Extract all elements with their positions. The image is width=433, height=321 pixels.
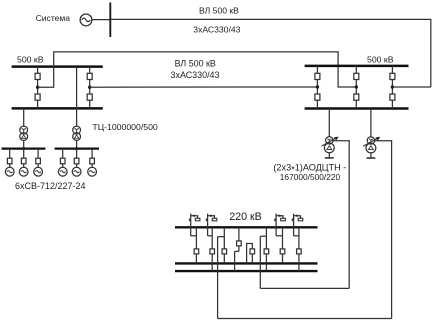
wire transformer T2 feed from upper bus xyxy=(76,67,78,127)
wire AT2 to 220 yard (bottom U) xyxy=(218,318,392,320)
breaker Q9 xyxy=(390,73,395,79)
bus W4 right 500 kV lower xyxy=(305,107,409,110)
bay AT1 connection (breaker drop + riser) xyxy=(260,227,268,288)
node T1-bus junction xyxy=(22,147,25,150)
svg-text:6хСВ-712/227-24: 6хСВ-712/227-24 xyxy=(15,181,86,191)
generator G2 bay xyxy=(19,149,28,177)
wire transformer T1 feed from lower bus xyxy=(23,108,25,126)
ground AT2 xyxy=(367,157,376,159)
generator G6 bay xyxy=(88,149,97,177)
220 kV switchyard xyxy=(175,211,392,319)
line feeder L1 xyxy=(190,214,200,264)
generator G1 bay xyxy=(5,149,14,177)
generator G3 bay xyxy=(34,149,43,177)
transformer T1 (ТЦ-1000000/500) xyxy=(20,126,28,140)
wire breaker bay C (right yard) xyxy=(316,66,318,109)
generator bus 1 xyxy=(2,148,46,150)
breaker Q3 xyxy=(87,73,92,79)
bus coupler bay (inverted U) xyxy=(247,244,255,264)
wire AT2 ground xyxy=(370,153,372,158)
svg-text:ВЛ 500 кВ: ВЛ 500 кВ xyxy=(199,5,239,15)
bus W2 left 500 kV lower xyxy=(12,107,103,110)
AC source G (system equivalent) xyxy=(80,14,92,26)
terminal bus bar of system xyxy=(109,3,111,38)
breaker Q7 xyxy=(354,73,359,79)
breaker Q5 xyxy=(315,73,320,79)
bay with upper breaker (bus tie) xyxy=(235,227,242,271)
wire AT1 to 220 yard (bottom U) xyxy=(260,287,349,289)
breaker Q10 xyxy=(390,94,395,100)
line feeder L4 xyxy=(292,214,302,272)
bus W5 220 kV upper xyxy=(175,226,318,228)
svg-text:3хАС330/43: 3хАС330/43 xyxy=(171,70,220,80)
breaker Q1 xyxy=(35,73,40,79)
svg-text:500 кВ: 500 кВ xyxy=(17,55,44,65)
bus W1 left 500 kV upper xyxy=(12,65,103,68)
autotransformer AT2 xyxy=(363,137,392,319)
svg-text:Система: Система xyxy=(36,13,71,23)
wire ВЛ drop to bay E xyxy=(392,86,430,88)
generators 6хСВ-712/227-24 xyxy=(5,149,96,192)
generator G5 bay xyxy=(72,149,81,177)
line feeder L2 xyxy=(206,214,216,272)
generator bus 2 xyxy=(55,148,99,150)
svg-text:ТЦ-1000000/500: ТЦ-1000000/500 xyxy=(92,122,158,132)
wire breaker bay A (left yard) xyxy=(37,67,39,109)
bus W7 220 kV lower 2 xyxy=(175,270,318,272)
breaker Q2 xyxy=(35,94,40,100)
svg-text:3хАС330/43: 3хАС330/43 xyxy=(193,24,240,34)
wire AT1 feed from lower bus xyxy=(328,109,330,137)
wire AT1 ground xyxy=(328,153,330,158)
wire T2 to generator bus 2 xyxy=(76,141,78,149)
breaker Q8 xyxy=(354,94,359,100)
node E1 junction xyxy=(391,85,394,88)
node D1 junction xyxy=(355,85,358,88)
wire T1 to generator bus 1 xyxy=(23,141,25,149)
transformer T2 (ТЦ-1000000/500) xyxy=(73,126,81,140)
wire tie line 2 (lower, long) xyxy=(90,86,318,88)
node T2-bus junction xyxy=(75,147,78,150)
svg-text:220 кВ: 220 кВ xyxy=(229,211,262,223)
svg-text:167000/500/220: 167000/500/220 xyxy=(280,172,341,182)
node B1 junction xyxy=(88,86,91,89)
bus W3 right 500 kV upper xyxy=(305,65,409,68)
generator G4 bay xyxy=(58,149,67,177)
right 500 kV yard xyxy=(273,55,430,319)
breaker Q6 xyxy=(315,94,320,100)
ground AT1 xyxy=(325,157,334,159)
svg-text:ВЛ 500 кВ: ВЛ 500 кВ xyxy=(175,59,216,69)
wire source to terminal bar xyxy=(92,19,110,21)
autotransformer AT1 xyxy=(321,137,349,289)
wire AT2 feed from lower bus xyxy=(370,109,372,137)
line feeder L3 xyxy=(275,214,285,264)
node C1 junction xyxy=(316,85,319,88)
breaker Q4 xyxy=(87,94,92,100)
wire breaker bay E (right yard) xyxy=(391,66,393,109)
wire ВЛ 500 кВ overhead line (top) xyxy=(110,19,431,87)
wire AT1 MV side xyxy=(333,141,349,289)
bus W6 220 kV lower 1 xyxy=(175,262,318,264)
wire breaker bay D (right yard) xyxy=(355,66,357,109)
node A1 junction xyxy=(36,86,39,89)
wire tie line 1 (upper, to right yard drop) xyxy=(38,52,357,87)
svg-text:500 кВ: 500 кВ xyxy=(367,55,394,65)
bay AT2 connection (breaker drop + riser) xyxy=(218,227,227,318)
wire AT2 MV side xyxy=(375,141,392,319)
wire breaker bay B (left yard) xyxy=(89,67,91,109)
